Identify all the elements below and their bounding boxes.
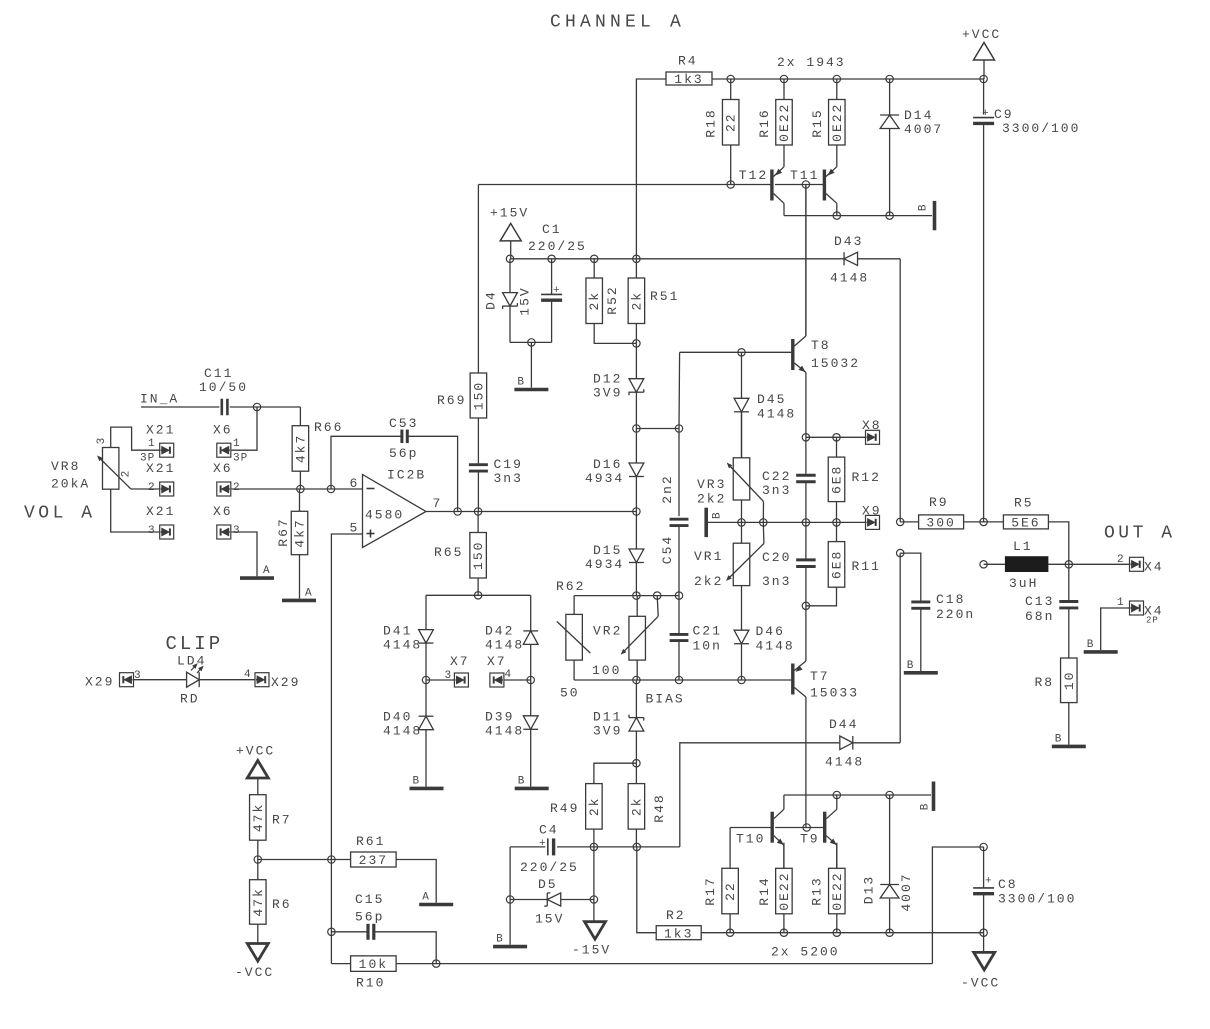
diode D45 — [734, 352, 796, 458]
svg-text:150: 150 — [471, 541, 486, 570]
svg-text:150: 150 — [471, 381, 486, 410]
diode D14 — [880, 79, 943, 216]
svg-text:T12: T12 — [739, 168, 768, 183]
resistor R6 — [250, 880, 292, 944]
resistor R49 — [550, 763, 636, 847]
svg-text:2k: 2k — [629, 291, 644, 311]
svg-text:D5: D5 — [538, 877, 558, 892]
svg-text:4934: 4934 — [585, 471, 624, 486]
svg-text:3: 3 — [96, 438, 108, 445]
svg-text:D44: D44 — [829, 717, 858, 732]
svg-text:R69: R69 — [437, 393, 466, 408]
svg-text:+VCC: +VCC — [962, 27, 1001, 42]
svg-text:D40: D40 — [383, 710, 412, 725]
svg-text:R7: R7 — [272, 813, 292, 828]
wire noninverting input down to feedback — [331, 534, 362, 964]
svg-text:4148: 4148 — [485, 724, 524, 739]
resistor R8 — [1035, 658, 1078, 745]
junction node C8 top — [980, 843, 987, 850]
svg-text:2k: 2k — [587, 291, 602, 311]
diode D40 — [383, 680, 433, 787]
svg-text:4148: 4148 — [825, 755, 864, 770]
label IN_A — [140, 391, 219, 407]
transistor T11 — [790, 145, 837, 216]
svg-text:0E22: 0E22 — [777, 871, 792, 910]
junction node gnd stem — [528, 339, 535, 346]
svg-text:237: 237 — [359, 853, 388, 868]
svg-text:220n: 220n — [936, 607, 975, 622]
connector X29 pin 4 — [244, 669, 300, 690]
junction node R10 right — [433, 960, 440, 967]
connector X7 pin 3 — [426, 654, 470, 687]
svg-text:2k2: 2k2 — [694, 574, 723, 589]
svg-text:R2: R2 — [666, 908, 686, 923]
svg-text:+VCC: +VCC — [236, 744, 275, 759]
svg-text:X7: X7 — [450, 654, 470, 669]
wire X6-3 to ground — [232, 532, 258, 576]
svg-text:6E8: 6E8 — [830, 465, 845, 494]
ground B top right — [918, 201, 935, 230]
svg-text:R11: R11 — [852, 559, 881, 574]
LED LD4 — [134, 654, 255, 707]
svg-text:300: 300 — [926, 516, 955, 531]
potentiometer VR2 — [592, 596, 658, 680]
junction node R51 bottom — [633, 340, 640, 347]
svg-text:220/25: 220/25 — [520, 860, 579, 875]
svg-text:T11: T11 — [790, 168, 819, 183]
svg-text:10/50: 10/50 — [199, 380, 248, 395]
resistor R69 body — [437, 373, 487, 418]
svg-text:3n3: 3n3 — [762, 483, 791, 498]
resistor R17 — [703, 828, 738, 933]
svg-text:1k3: 1k3 — [674, 72, 703, 87]
capacitor C18 — [900, 553, 975, 671]
resistor R65 — [434, 512, 486, 596]
junction nodes on inverting input wire — [297, 485, 335, 492]
svg-text:CLIP: CLIP — [166, 633, 224, 655]
svg-text:0E22: 0E22 — [777, 103, 792, 142]
ground B below X4 pin1 — [1084, 639, 1118, 652]
svg-text:2x 5200: 2x 5200 — [771, 945, 840, 960]
svg-text:56p: 56p — [355, 909, 384, 924]
svg-text:+: + — [553, 285, 560, 297]
transistor T12 — [739, 145, 784, 216]
wire X4 pin1 to ground — [1101, 608, 1130, 650]
svg-text:D14: D14 — [904, 108, 933, 123]
svg-text:LD4: LD4 — [177, 654, 206, 669]
svg-text:C8: C8 — [998, 877, 1018, 892]
resistor R15 — [810, 79, 845, 145]
svg-text:T9: T9 — [800, 832, 820, 847]
wire long bottom feedback — [396, 963, 932, 965]
svg-text:T7: T7 — [810, 669, 830, 684]
wire rail D12 to C54 column — [636, 428, 679, 430]
svg-text:T8: T8 — [811, 338, 831, 353]
svg-text:22: 22 — [723, 881, 738, 901]
junction nodes on +VCC rail — [727, 75, 987, 82]
svg-text:R51: R51 — [650, 289, 679, 304]
svg-text:BIAS: BIAS — [646, 692, 685, 707]
wire C4 left down — [509, 847, 511, 945]
diode D43 — [830, 234, 900, 286]
svg-text:4k7: 4k7 — [293, 434, 308, 463]
potentiometer VR1 — [694, 522, 764, 630]
wire bottom rail 2x5200 — [701, 932, 983, 934]
svg-text:4: 4 — [505, 669, 512, 681]
svg-text:0E22: 0E22 — [830, 103, 845, 142]
junction nodes right column — [897, 518, 904, 557]
svg-text:A: A — [305, 587, 313, 599]
svg-text:2: 2 — [121, 471, 133, 478]
resistor R4 — [666, 54, 712, 88]
wire top +VCC rail — [712, 78, 984, 80]
junction node C15 left — [328, 928, 335, 935]
wire R4 left to left column down to +15V rail — [636, 79, 666, 259]
svg-text:3: 3 — [445, 670, 452, 682]
diode D41 — [383, 595, 433, 680]
svg-text:10k: 10k — [359, 957, 388, 972]
svg-text:-VCC: -VCC — [235, 965, 274, 980]
wire X6-1 up to input — [232, 407, 258, 450]
svg-text:C15: C15 — [355, 892, 384, 907]
svg-text:1: 1 — [1117, 597, 1124, 609]
svg-text:-15V: -15V — [572, 943, 611, 958]
svg-text:C4: C4 — [539, 823, 559, 838]
svg-text:R18: R18 — [704, 108, 719, 137]
svg-text:+: + — [982, 108, 989, 120]
svg-text:L1: L1 — [1013, 539, 1033, 554]
connector X6 pin 2 — [213, 461, 240, 496]
svg-text:3: 3 — [148, 525, 155, 537]
svg-text:C13: C13 — [1025, 594, 1054, 609]
op-amp IC2B — [350, 468, 441, 548]
power +15V — [490, 206, 529, 259]
svg-text:CHANNEL A: CHANNEL A — [550, 13, 685, 33]
svg-text:OUT A: OUT A — [1104, 524, 1176, 544]
junction nodes base rail — [727, 181, 810, 188]
svg-text:4148: 4148 — [830, 271, 869, 286]
capacitor C22 — [762, 437, 816, 522]
svg-text:6: 6 — [350, 476, 358, 491]
wire op-amp output rail — [426, 511, 636, 513]
label 2x 1943 — [777, 55, 846, 70]
svg-text:5: 5 — [350, 521, 358, 536]
svg-text:3V9: 3V9 — [593, 386, 622, 401]
svg-text:X6: X6 — [213, 461, 233, 476]
svg-text:C53: C53 — [389, 416, 418, 431]
connector X6 pin 3 — [213, 504, 240, 539]
connector X7 pin 4 — [487, 654, 531, 687]
label BIAS — [646, 692, 685, 707]
potentiometer VR8 — [96, 427, 160, 532]
label VR8 20kA — [51, 459, 90, 492]
diode D39 — [485, 680, 538, 787]
connector X4 pin 2 — [1117, 554, 1164, 575]
junction nodes collector rail bottom — [833, 791, 893, 798]
svg-text:T10: T10 — [736, 832, 765, 847]
label 2x 5200 — [771, 945, 840, 960]
svg-text:R15: R15 — [810, 108, 825, 137]
svg-text:2: 2 — [233, 482, 240, 494]
junction node D11 bottom — [633, 760, 640, 767]
wire collector rail B bottom — [784, 794, 931, 796]
svg-text:C21: C21 — [693, 624, 722, 639]
title CHANNEL A — [550, 13, 685, 33]
potentiometer VR3 — [697, 412, 764, 522]
svg-text:+15V: +15V — [490, 206, 529, 221]
svg-text:47k: 47k — [251, 887, 266, 916]
resistor R61 — [351, 834, 437, 903]
wire X8 row — [806, 436, 866, 438]
wire divider to feedback column — [258, 859, 351, 861]
junction nodes BIAS rail — [633, 676, 746, 683]
svg-text:D15: D15 — [593, 543, 622, 558]
svg-text:D41: D41 — [383, 624, 412, 639]
wire BIAS rail — [574, 679, 793, 681]
svg-text:10n: 10n — [693, 639, 722, 654]
svg-text:IN_A: IN_A — [140, 391, 179, 406]
junction node after C11 — [253, 403, 260, 410]
svg-text:R4: R4 — [678, 54, 698, 69]
svg-text:4148: 4148 — [383, 638, 422, 653]
transistor T8 — [793, 185, 860, 438]
diode D5 zener 15V — [510, 877, 594, 927]
junction nodes — [633, 425, 683, 432]
svg-text:3: 3 — [233, 525, 240, 537]
svg-text:4934: 4934 — [585, 557, 624, 572]
svg-text:15V: 15V — [517, 286, 532, 315]
connector X4 pin 1 — [1117, 597, 1164, 626]
resistor R52 — [586, 259, 636, 344]
svg-text:3n3: 3n3 — [762, 574, 791, 589]
svg-text:2n2: 2n2 — [660, 474, 675, 503]
svg-text:RD: RD — [180, 692, 200, 707]
svg-text:C9: C9 — [994, 107, 1014, 122]
connector X9 — [862, 504, 882, 530]
resistor R9 — [900, 495, 983, 531]
connector X21 pin 2 — [146, 461, 175, 496]
resistor R48 — [628, 763, 667, 847]
junction nodes +15V rail — [506, 255, 640, 262]
junction nodes collector rail — [833, 212, 893, 219]
svg-text:1k3: 1k3 — [664, 926, 693, 941]
svg-text:R8: R8 — [1035, 675, 1055, 690]
resistor R14 — [757, 843, 792, 933]
capacitor C19 — [469, 418, 523, 512]
wire D44 right column up to R9 — [899, 553, 901, 743]
inductor L1 — [984, 539, 1069, 591]
ground B left of mid rail — [706, 508, 865, 537]
svg-text:C20: C20 — [762, 550, 791, 565]
diode D16 — [585, 429, 644, 512]
svg-text:3n3: 3n3 — [494, 471, 523, 486]
svg-text:R9: R9 — [929, 495, 949, 510]
power +VCC bottom left — [236, 744, 275, 795]
svg-text:+: + — [539, 838, 546, 850]
resistor R7 — [250, 795, 292, 880]
svg-text:B: B — [413, 775, 421, 787]
junction nodes bottom rail — [726, 929, 987, 936]
wire up to D44 row — [680, 743, 839, 847]
resistor R10 — [331, 956, 396, 991]
svg-text:D45: D45 — [757, 392, 786, 407]
svg-text:C18: C18 — [936, 592, 965, 607]
svg-text:56p: 56p — [389, 446, 418, 461]
junction node C20 R11 — [802, 602, 809, 609]
wire collector rail B top — [784, 215, 932, 217]
diode D12 zener 3V9 — [593, 343, 644, 428]
svg-text:R14: R14 — [757, 876, 772, 905]
svg-text:R10: R10 — [356, 976, 385, 991]
svg-text:R6: R6 — [272, 897, 292, 912]
resistor R11 — [806, 522, 881, 605]
svg-text:A: A — [422, 892, 430, 904]
svg-text:50: 50 — [560, 686, 580, 701]
transistor T9 — [800, 795, 837, 868]
capacitor C53 feedback — [331, 416, 458, 512]
svg-text:VR1: VR1 — [694, 549, 723, 564]
svg-text:R12: R12 — [852, 470, 881, 485]
svg-text:A: A — [263, 565, 271, 577]
connector X21 pin 3 — [146, 504, 175, 539]
capacitor C13 — [1025, 564, 1078, 658]
svg-text:100: 100 — [592, 663, 621, 678]
wire C4 row — [510, 846, 680, 848]
svg-text:B: B — [1055, 733, 1063, 745]
svg-text:4148: 4148 — [383, 724, 422, 739]
power -VCC bottom right — [961, 952, 1000, 990]
svg-text:VOL A: VOL A — [24, 504, 96, 524]
junction nodes X7 row — [422, 676, 534, 683]
svg-text:X29: X29 — [85, 675, 114, 690]
svg-text:C22: C22 — [762, 469, 791, 484]
diode D15 — [585, 512, 644, 596]
svg-text:D39: D39 — [485, 710, 514, 725]
junction node output column R9 — [980, 518, 987, 525]
svg-text:C19: C19 — [494, 457, 523, 472]
wire +15V rail — [510, 258, 842, 260]
svg-text:VR8: VR8 — [51, 459, 80, 474]
svg-text:20kA: 20kA — [51, 477, 90, 492]
svg-text:R5: R5 — [1014, 496, 1034, 511]
junction nodes R62 rail — [633, 592, 683, 599]
svg-text:3P: 3P — [233, 453, 248, 465]
resistor R51 — [628, 259, 679, 344]
svg-text:4580: 4580 — [365, 508, 404, 523]
capacitor C4 — [520, 823, 579, 876]
transistor T10 — [736, 795, 784, 868]
svg-text:+: + — [985, 876, 992, 888]
connector X8 — [862, 418, 882, 444]
svg-text:R16: R16 — [757, 108, 772, 137]
transistor T7 — [793, 606, 859, 828]
wire R48 to R2 — [637, 847, 656, 933]
svg-text:D4: D4 — [484, 290, 499, 310]
ground A below R61 — [419, 892, 453, 905]
junction node R61 left — [328, 856, 335, 863]
svg-text:6E8: 6E8 — [830, 550, 845, 579]
svg-text:-VCC: -VCC — [961, 976, 1000, 991]
resistor R66 — [292, 407, 343, 489]
svg-text:3300/100: 3300/100 — [1002, 121, 1080, 136]
wire D43 to right column down to R9 — [899, 259, 901, 522]
label OUT A — [1104, 524, 1176, 544]
ground A below R67 — [282, 587, 316, 600]
wire base rail upper drivers — [478, 184, 824, 186]
junction node lower base rail — [803, 824, 810, 831]
svg-text:X21: X21 — [146, 504, 175, 519]
svg-text:X29: X29 — [271, 675, 300, 690]
svg-text:R49: R49 — [550, 801, 579, 816]
svg-text:B: B — [518, 775, 526, 787]
resistor R13 — [810, 843, 845, 933]
junction nodes D5 row — [506, 896, 597, 903]
svg-text:X6: X6 — [213, 504, 233, 519]
svg-text:R52: R52 — [605, 285, 620, 314]
resistor R16 — [757, 79, 792, 145]
svg-text:3uH: 3uH — [1009, 576, 1038, 591]
svg-text:7: 7 — [433, 496, 441, 511]
svg-text:4k7: 4k7 — [293, 518, 308, 547]
wire input row 2 to op-amp — [232, 488, 363, 490]
svg-text:4148: 4148 — [757, 407, 796, 422]
svg-text:4148: 4148 — [756, 639, 795, 654]
ground B below D40 — [410, 775, 444, 788]
junction node R65 bottom — [474, 592, 481, 599]
wire lower base rail — [730, 827, 825, 829]
wire C54 column — [678, 352, 681, 516]
svg-text:68n: 68n — [1025, 609, 1054, 624]
power -15V — [572, 922, 611, 958]
svg-text:D16: D16 — [593, 457, 622, 472]
svg-text:VR3: VR3 — [697, 477, 726, 492]
svg-text:X9: X9 — [862, 504, 882, 519]
svg-text:2k: 2k — [587, 797, 602, 817]
svg-text:D42: D42 — [485, 624, 514, 639]
diode D44 — [825, 717, 900, 770]
svg-text:15032: 15032 — [811, 356, 860, 371]
svg-text:B: B — [496, 934, 504, 946]
connector X6 pin 1 — [213, 422, 248, 464]
junction node R7 R6 — [254, 856, 261, 863]
svg-text:5E6: 5E6 — [1011, 516, 1040, 531]
resistor R5 — [984, 496, 1069, 565]
svg-text:2k2: 2k2 — [697, 492, 726, 507]
svg-text:4: 4 — [244, 669, 251, 681]
svg-text:15V: 15V — [535, 912, 564, 927]
svg-text:R62: R62 — [556, 579, 585, 594]
svg-text:10: 10 — [1062, 670, 1077, 690]
junction nodes mid rail — [738, 519, 840, 526]
svg-text:B: B — [907, 660, 915, 672]
diode D42 — [485, 595, 538, 680]
svg-text:VR2: VR2 — [593, 624, 622, 639]
diode D11 zener 3V9 — [593, 680, 644, 763]
svg-text:B: B — [517, 377, 525, 389]
rheostat R62 — [556, 579, 590, 701]
connector X29 pin 3 — [85, 670, 141, 690]
svg-text:R61: R61 — [356, 834, 385, 849]
svg-text:D11: D11 — [593, 710, 622, 725]
resistor R12 — [828, 437, 881, 522]
wire bottom right up to C8 node — [932, 847, 983, 964]
svg-text:D13: D13 — [862, 875, 877, 904]
label VOL A — [24, 504, 96, 524]
power -VCC bottom left — [235, 944, 274, 981]
svg-text:22: 22 — [724, 112, 739, 132]
svg-text:4007: 4007 — [904, 122, 943, 137]
svg-text:R65: R65 — [434, 545, 463, 560]
